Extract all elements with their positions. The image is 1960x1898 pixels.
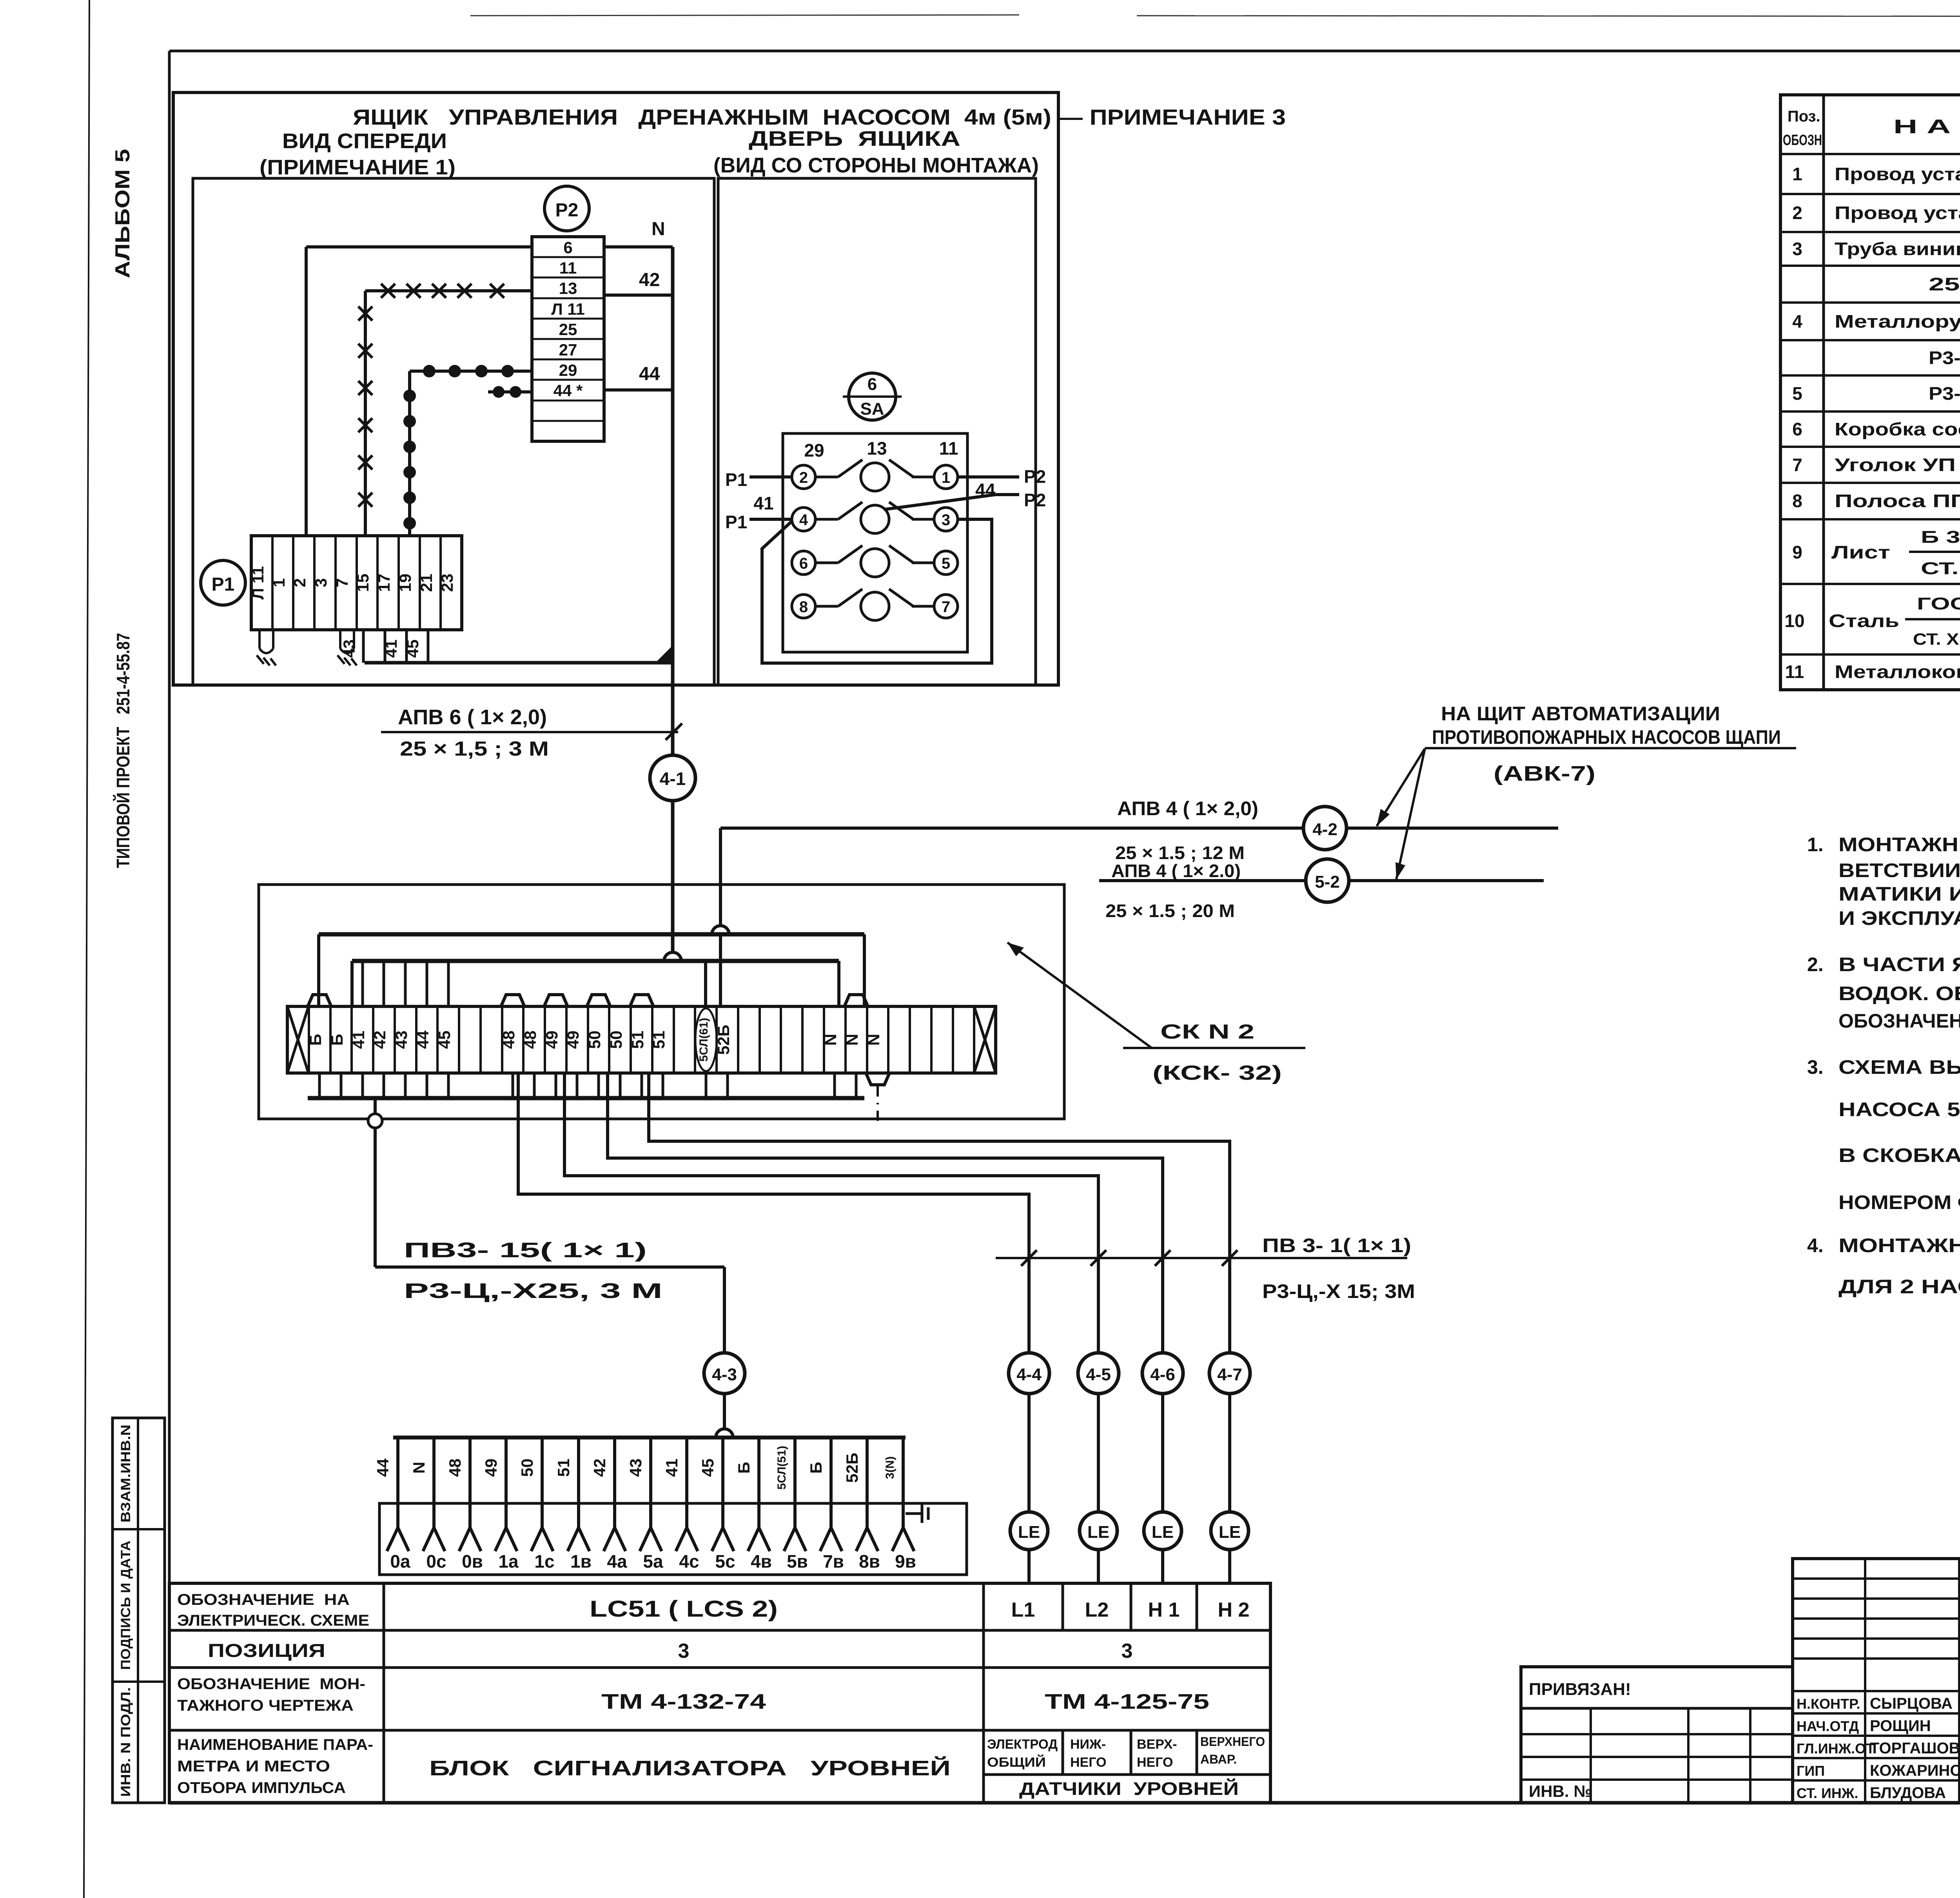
scan artifact top line — [470, 15, 1019, 16]
svg-text:49: 49 — [564, 1031, 582, 1049]
svg-text:Б: Б — [306, 1034, 325, 1046]
svg-text:4-1: 4-1 — [660, 769, 686, 789]
svg-text:1: 1 — [942, 469, 950, 486]
svg-text:3: 3 — [942, 511, 950, 529]
svg-text:(АВК-7): (АВК-7) — [1494, 762, 1595, 785]
svg-text:Р2: Р2 — [1024, 466, 1046, 487]
terminator symbol — [906, 1504, 928, 1523]
svg-text:L1: L1 — [1011, 1599, 1035, 1621]
svg-text:ОТБОРА ИМПУЛЬСА: ОТБОРА ИМПУЛЬСА — [177, 1779, 346, 1796]
svg-text:17: 17 — [375, 574, 393, 592]
svg-text:4: 4 — [799, 511, 808, 529]
svg-text:ОБЩИЙ: ОБЩИЙ — [987, 1755, 1046, 1770]
svg-text:0в: 0в — [462, 1551, 483, 1572]
sensor wire 42 — [590, 1438, 627, 1572]
svg-text:5: 5 — [942, 555, 950, 572]
svg-text:50: 50 — [518, 1459, 536, 1477]
svg-text:42: 42 — [590, 1459, 609, 1477]
sensor circle LE — [1211, 1512, 1249, 1550]
svg-text:3: 3 — [1122, 1640, 1133, 1662]
wire 4-2 — [720, 827, 1558, 830]
terminal strip P1 — [249, 536, 462, 630]
svg-text:1: 1 — [270, 578, 288, 587]
svg-text:Б: Б — [735, 1462, 753, 1474]
svg-text:В ЧАСТИ ЯЩИКА УПРАВЛЕНИЯ: В ЧАСТИ ЯЩИКА УПРАВЛЕНИЯ ВЫПОЛНИТЬ МОНТА… — [1838, 954, 1960, 975]
sensor wire 41 — [662, 1438, 699, 1572]
circle 5-2 — [1306, 859, 1349, 902]
svg-text:43: 43 — [392, 1031, 410, 1049]
svg-text:НАЧ.ОТД: НАЧ.ОТД — [1797, 1718, 1859, 1734]
svg-text:Металлорукав ТУ 22. 3988-77: Металлорукав ТУ 22. 3988-77 — [1835, 311, 1960, 332]
svg-text:3.: 3. — [1807, 1056, 1824, 1078]
svg-text:43: 43 — [626, 1459, 645, 1477]
svg-text:1с: 1с — [534, 1551, 554, 1572]
callout CK N2 — [1007, 943, 1152, 1048]
sensor wire 3(N) — [884, 1438, 916, 1572]
wire 48 — [518, 1073, 1029, 1353]
sensor wire 5СЛ(51) — [775, 1438, 808, 1572]
svg-text:1: 1 — [1792, 164, 1802, 184]
cable slash — [666, 723, 682, 740]
P2 designator circle — [544, 186, 589, 231]
svg-text:50: 50 — [585, 1031, 604, 1049]
demount wire with x marks — [358, 284, 532, 536]
wire stubs to main drop — [365, 661, 673, 665]
wire loop pin4 to pin3 — [762, 519, 992, 663]
svg-text:7в: 7в — [823, 1551, 844, 1572]
wire P2 row6 to P1 riser — [306, 245, 532, 248]
sensor wire 44 — [374, 1438, 410, 1572]
pass circle — [368, 1114, 382, 1128]
svg-text:БЛУДОВА: БЛУДОВА — [1870, 1784, 1946, 1802]
svg-text:8в: 8в — [859, 1551, 880, 1572]
wire below 4-5 — [1097, 1394, 1100, 1512]
svg-text:3(N): 3(N) — [884, 1456, 897, 1479]
switch SA contact box — [783, 433, 967, 652]
wire to table — [1027, 1550, 1031, 1583]
wire to table — [1161, 1550, 1164, 1583]
svg-text:ГЛ.ИНЖ.ОТ: ГЛ.ИНЖ.ОТ — [1797, 1740, 1875, 1757]
svg-text:Р3-Ц,-Х 15; 3М: Р3-Ц,-Х 15; 3М — [1262, 1280, 1415, 1302]
svg-text:Коробка соединительная КСК-3: Коробка соединительная КСК-32 — [1835, 419, 1960, 439]
svg-text:19: 19 — [396, 574, 414, 592]
wire PV3-15 vertical — [374, 1098, 377, 1114]
wire 50 — [608, 1073, 1163, 1353]
svg-text:4-6: 4-6 — [1150, 1365, 1175, 1384]
svg-text:ГОСТ 2590- 71*: ГОСТ 2590- 71* — [1917, 594, 1960, 613]
svg-text:7: 7 — [942, 598, 950, 616]
svg-text:41: 41 — [662, 1459, 681, 1477]
svg-text:ТАЖНОГО ЧЕРТЕЖА: ТАЖНОГО ЧЕРТЕЖА — [177, 1697, 354, 1714]
svg-text:СХЕМА ВЫПОЛНЕНА ДЛЯ НАСОСА: СХЕМА ВЫПОЛНЕНА ДЛЯ НАСОСА 4М И АНАЛОГИЧ… — [1838, 1056, 1960, 1078]
svg-text:25 × 1,5: 25 × 1,5 — [1929, 274, 1960, 294]
svg-text:Б 3.0 ГОСТ 19903-74*: Б 3.0 ГОСТ 19903-74* — [1921, 528, 1960, 547]
svg-text:В СКОБКАХ И МАРКИРОВКИ КАБ: В СКОБКАХ И МАРКИРОВКИ КАБЕЛЯ В СООТВЕТС… — [1838, 1144, 1960, 1166]
svg-text:4: 4 — [1792, 311, 1802, 332]
svg-text:8: 8 — [1792, 491, 1802, 511]
svg-text:25: 25 — [559, 320, 577, 339]
sensor circle LE — [1080, 1512, 1117, 1550]
svg-text:НОМЕРОМ ФУНКЦИОНАЛЬНОЙ ГРУ: НОМЕРОМ ФУНКЦИОНАЛЬНОЙ ГРУППЫ. — [1838, 1191, 1960, 1213]
svg-text:7: 7 — [333, 578, 351, 587]
svg-text:48: 48 — [499, 1031, 518, 1049]
svg-text:Б: Б — [807, 1462, 825, 1474]
svg-text:АПВ 6 ( 1× 2,0): АПВ 6 ( 1× 2,0) — [398, 705, 547, 729]
cell stubs to bottom bus — [319, 1073, 856, 1098]
svg-text:43: 43 — [340, 640, 358, 658]
svg-text:L2: L2 — [1085, 1599, 1109, 1621]
svg-text:И ЭКСПЛУАТАЦИИ ПРИБОРОВ.: И ЭКСПЛУАТАЦИИ ПРИБОРОВ. — [1838, 907, 1960, 929]
svg-text:СК N 2: СК N 2 — [1160, 1021, 1254, 1043]
svg-text:ВИД СПЕРЕДИ: ВИД СПЕРЕДИ — [282, 129, 447, 153]
svg-text:41: 41 — [382, 640, 400, 658]
svg-text:ОБОЗНАЧЕНИЕ НА: ОБОЗНАЧЕНИЕ НА — [177, 1591, 350, 1608]
sensor wire Б — [807, 1438, 844, 1572]
svg-text:ВЕРХ-: ВЕРХ- — [1137, 1737, 1177, 1752]
svg-text:7: 7 — [1792, 455, 1802, 475]
svg-text:29: 29 — [559, 361, 577, 379]
wire below 4-7 — [1228, 1394, 1231, 1512]
circle 4-7 — [1209, 1353, 1250, 1394]
sensor wire 50 — [518, 1438, 555, 1572]
svg-text:ОБОЗН: ОБОЗН — [1783, 132, 1822, 149]
wire PV3-15 run — [374, 1128, 377, 1267]
svg-text:2: 2 — [290, 578, 309, 587]
svg-text:SA: SA — [860, 399, 884, 419]
svg-text:51: 51 — [628, 1031, 647, 1049]
svg-text:N: N — [821, 1034, 840, 1046]
svg-text:4-2: 4-2 — [1312, 820, 1338, 839]
dash-dot tail — [877, 1086, 879, 1122]
svg-text:Лист: Лист — [1831, 542, 1890, 562]
wire main drop — [671, 247, 675, 755]
svg-text:4-3: 4-3 — [712, 1365, 737, 1384]
table row 7 — [1792, 455, 1960, 475]
svg-text:LЕ: LЕ — [1152, 1523, 1174, 1542]
wire 51 — [649, 1073, 1230, 1353]
svg-text:Б: Б — [328, 1034, 346, 1046]
top hooks — [308, 995, 868, 1006]
svg-text:СТ. ИНЖ.: СТ. ИНЖ. — [1797, 1785, 1858, 1801]
wire P2 row1 — [958, 475, 1019, 479]
cable run line — [996, 1257, 1407, 1259]
svg-text:Н 2: Н 2 — [1218, 1599, 1250, 1621]
svg-text:ТМ 4-132-74: ТМ 4-132-74 — [601, 1690, 766, 1713]
svg-text:48: 48 — [446, 1459, 464, 1477]
svg-text:5с: 5с — [715, 1551, 735, 1572]
svg-text:ПОДПИСЬ И ДАТА: ПОДПИСЬ И ДАТА — [118, 1541, 133, 1670]
svg-text:Полоса ПП 30: Полоса ПП 30 — [1835, 491, 1960, 511]
paper edge left — [84, 0, 89, 1898]
svg-text:44 *: 44 * — [554, 381, 583, 400]
svg-text:ТМ 4-125-75: ТМ 4-125-75 — [1045, 1690, 1209, 1713]
bump 4-1 on bus — [664, 952, 681, 961]
leader arrow 2 — [1396, 749, 1425, 879]
svg-text:Н 1: Н 1 — [1148, 1599, 1180, 1621]
svg-text:5-2: 5-2 — [1315, 872, 1340, 892]
svg-text:ТОРГАШОВ: ТОРГАШОВ — [1870, 1740, 1960, 1757]
circle 4-5 — [1078, 1353, 1119, 1394]
table row 5 — [1792, 383, 1960, 404]
svg-text:1а: 1а — [498, 1551, 519, 1572]
svg-text:МОНТАЖНЫЕ РАБОТЫ ДОЛЖНЫ: МОНТАЖНЫЕ РАБОТЫ ДОЛЖНЫ БЫТЬ ВЫПОЛНЕНЫ В… — [1838, 834, 1960, 856]
oval around 5SL — [695, 1008, 717, 1071]
svg-text:51: 51 — [554, 1459, 573, 1477]
svg-text:ВЕТСТВИИ С СНиП 3.05.07-85.: ВЕТСТВИИ С СНиП 3.05.07-85. НОРМАЛЯМИ ГЛ… — [1838, 859, 1960, 881]
svg-text:44: 44 — [374, 1458, 392, 1477]
svg-text:9в: 9в — [895, 1551, 916, 1572]
svg-text:5СЛ(51): 5СЛ(51) — [775, 1446, 788, 1490]
svg-text:Сталь: Сталь — [1829, 611, 1899, 631]
svg-text:Провод установочный ПВ3-1-38: Провод установочный ПВ3-1-380 ГОСТ 6323-… — [1835, 164, 1960, 184]
front view panel — [193, 178, 714, 685]
control box outer frame — [173, 92, 1058, 685]
mount wire with dots — [403, 365, 532, 536]
svg-text:Л 11: Л 11 — [249, 566, 267, 600]
svg-text:АЛЬБОМ 5: АЛЬБОМ 5 — [111, 149, 134, 278]
bottom hook — [866, 1073, 889, 1085]
svg-text:АПВ 4 ( 1× 2,0): АПВ 4 ( 1× 2,0) — [1117, 798, 1258, 819]
svg-text:41: 41 — [753, 493, 773, 513]
sensor wire 51 — [554, 1438, 592, 1572]
materials table — [1780, 95, 1960, 690]
svg-text:КОЖАРИНОВА: КОЖАРИНОВА — [1870, 1762, 1960, 1779]
svg-text:9: 9 — [1792, 542, 1802, 562]
run slashes — [1021, 1250, 1238, 1266]
svg-text:42: 42 — [639, 270, 660, 290]
svg-text:45: 45 — [403, 640, 422, 658]
svg-text:4-7: 4-7 — [1217, 1365, 1242, 1384]
SA contact row 2-1 — [792, 460, 958, 491]
svg-text:N: N — [864, 1034, 883, 1046]
svg-text:Р1: Р1 — [725, 470, 747, 490]
svg-text:ВЗАМ.ИНВ.N: ВЗАМ.ИНВ.N — [118, 1425, 133, 1523]
svg-text:(ВИД СО СТОРОНЫ МОНТАЖА): (ВИД СО СТОРОНЫ МОНТАЖА) — [713, 154, 1039, 177]
SA contact row 8-7 — [792, 589, 958, 620]
svg-text:(КСК- 32): (КСК- 32) — [1152, 1062, 1282, 1084]
svg-text:45: 45 — [699, 1459, 717, 1477]
svg-text:ЭЛЕКТРИЧЕСК. СХЕМЕ: ЭЛЕКТРИЧЕСК. СХЕМЕ — [177, 1612, 369, 1629]
svg-text:Металлоконструкции для крепл: Металлоконструкции для крепления трасс — [1835, 662, 1960, 682]
risers bus2 cells 41-45 — [363, 961, 448, 1006]
circle 4-2 — [1303, 807, 1347, 850]
svg-text:5СЛ(61): 5СЛ(61) — [697, 1018, 710, 1062]
svg-text:13: 13 — [559, 279, 577, 297]
terminal stubs 43 41 45 — [340, 630, 428, 663]
svg-text:ДЛЯ 2 НАСОСОВ.: ДЛЯ 2 НАСОСОВ. — [1838, 1276, 1960, 1298]
title block left grid — [1521, 1667, 1793, 1803]
svg-text:3: 3 — [312, 578, 330, 587]
wire to table — [1228, 1550, 1231, 1583]
bus second — [352, 959, 839, 963]
svg-text:N: N — [843, 1034, 861, 1046]
leader arrow 1 — [1377, 749, 1425, 826]
svg-text:Р3-Ц,-Х 15: Р3-Ц,-Х 15 — [1929, 348, 1960, 368]
svg-text:25 × 1.5 ; 12 М: 25 × 1.5 ; 12 М — [1115, 843, 1245, 863]
svg-text:ПОЗИЦИЯ: ПОЗИЦИЯ — [208, 1641, 325, 1661]
svg-text:ВОДОК. ОБОЗНАЧЕННЫХ —●—●—: ВОДОК. ОБОЗНАЧЕННЫХ —●—●— И ДЕМОНТАЖ ПРО… — [1838, 983, 1960, 1004]
svg-text:ИНВ. N ПОДЛ.: ИНВ. N ПОДЛ. — [118, 1687, 133, 1797]
svg-text:1.: 1. — [1807, 834, 1824, 856]
svg-text:27: 27 — [559, 341, 577, 359]
svg-text:АПВ 4 ( 1× 2.0): АПВ 4 ( 1× 2.0) — [1111, 861, 1241, 881]
svg-text:Поз.: Поз. — [1788, 108, 1820, 125]
drop to 5SL — [704, 961, 707, 1006]
table row 9 list — [1792, 528, 1960, 578]
svg-text:НЕГО: НЕГО — [1070, 1755, 1107, 1770]
svg-text:4в: 4в — [751, 1551, 772, 1572]
svg-text:СТ. 3 ГОСТ 16523 - 70*: СТ. 3 ГОСТ 16523 - 70* — [1921, 559, 1960, 578]
svg-text:LЕ: LЕ — [1219, 1523, 1241, 1542]
P1 designator circle — [201, 560, 245, 605]
switch SA designator — [849, 373, 896, 420]
svg-text:Труба винипластовая ТУ 619.0: Труба винипластовая ТУ 619.051. 249-79 — [1835, 239, 1960, 259]
svg-text:ТИПОВОЙ ПРОЕКТ 251-4-55.87: ТИПОВОЙ ПРОЕКТ 251-4-55.87 — [113, 633, 133, 868]
svg-text:ПРОТИВОПОЖАРНЫХ НАСОСОВ ЩАПИ: ПРОТИВОПОЖАРНЫХ НАСОСОВ ЩАПИ — [1432, 726, 1781, 748]
svg-text:НИЖ-: НИЖ- — [1070, 1737, 1106, 1752]
SA contact row 6-5 — [792, 546, 958, 577]
table row 1 — [1792, 164, 1960, 184]
table row 4 — [1792, 311, 1960, 332]
sensor circle LE — [1144, 1512, 1181, 1550]
wire 49 — [564, 1073, 1098, 1353]
table row 2 — [1792, 203, 1960, 223]
table row Р3-Ц,-Х 15 — [1929, 348, 1960, 368]
svg-text:Р2: Р2 — [1024, 490, 1046, 510]
circle 4-6 — [1142, 1353, 1183, 1394]
svg-text:41: 41 — [349, 1031, 368, 1049]
svg-text:Уголок УП 35× 35: Уголок УП 35× 35 — [1835, 455, 1960, 475]
svg-text:Р2: Р2 — [555, 200, 579, 221]
svg-text:LС51 ( LСS 2): LС51 ( LСS 2) — [590, 1596, 778, 1622]
svg-text:44: 44 — [414, 1030, 432, 1049]
drawing frame — [169, 50, 1960, 53]
terminal strip CK — [287, 1006, 996, 1073]
svg-text:ДАТЧИКИ УРОВНЕЙ: ДАТЧИКИ УРОВНЕЙ — [1019, 1778, 1239, 1799]
svg-text:Провод установочный АПВ- 2,0: Провод установочный АПВ- 2,0-380 — [1835, 203, 1960, 223]
svg-text:АВАР.: АВАР. — [1200, 1752, 1237, 1766]
wire below 4-4 — [1027, 1394, 1031, 1512]
legend table — [169, 1583, 1270, 1803]
bump 4-2 on bus — [712, 926, 729, 934]
svg-text:6: 6 — [1792, 419, 1802, 439]
svg-text:10: 10 — [1784, 611, 1804, 631]
svg-text:5в: 5в — [787, 1551, 808, 1572]
margin stamp column — [113, 1418, 165, 1803]
svg-text:БЛОК СИГНАЛИЗАТОРА УРОВНЕЙ: БЛОК СИГНАЛИЗАТОРА УРОВНЕЙ — [429, 1756, 951, 1780]
ground hook 1 — [257, 630, 276, 665]
svg-text:LЕ: LЕ — [1018, 1523, 1040, 1542]
table row 6 — [1792, 419, 1960, 439]
sensor wire 52Б — [843, 1438, 880, 1572]
svg-text:НА ЩИТ АВТОМАТИЗАЦИИ: НА ЩИТ АВТОМАТИЗАЦИИ — [1441, 703, 1720, 725]
svg-text:ГИП: ГИП — [1797, 1763, 1825, 1779]
svg-text:Р1: Р1 — [725, 512, 747, 532]
svg-text:3: 3 — [678, 1640, 690, 1662]
svg-text:6: 6 — [867, 375, 877, 394]
svg-text:(ПРИМЕЧАНИЕ 1): (ПРИМЕЧАНИЕ 1) — [260, 156, 456, 179]
svg-text:ПРИВЯЗАН!: ПРИВЯЗАН! — [1529, 1680, 1631, 1699]
svg-text:НЕГО: НЕГО — [1137, 1755, 1173, 1770]
svg-text:44: 44 — [639, 364, 660, 384]
svg-text:2.: 2. — [1807, 954, 1824, 975]
svg-text:4-4: 4-4 — [1016, 1365, 1042, 1384]
svg-text:2: 2 — [1792, 203, 1802, 223]
svg-text:ПВ 3- 1( 1× 1): ПВ 3- 1( 1× 1) — [1262, 1235, 1411, 1256]
svg-text:МОНТАЖНЫЕ МАТЕРИАЛЫ И: МОНТАЖНЫЕ МАТЕРИАЛЫ И ИЗДЕЛИЯ УЧТЕНЫ — [1838, 1235, 1960, 1256]
door view panel — [718, 178, 1036, 685]
sensor wire 49 — [482, 1438, 519, 1572]
sensor wire 43 — [626, 1438, 663, 1572]
svg-text:11: 11 — [939, 438, 958, 459]
level block outline — [379, 1503, 967, 1575]
svg-text:4с: 4с — [679, 1551, 699, 1572]
svg-text:25 × 1.5 ; 20 М: 25 × 1.5 ; 20 М — [1105, 901, 1235, 921]
svg-text:8: 8 — [799, 598, 808, 616]
svg-text:6: 6 — [563, 238, 572, 257]
mount wire stub dots — [488, 386, 532, 398]
svg-text:СЫРЦОВА: СЫРЦОВА — [1870, 1695, 1953, 1712]
svg-text:РОЩИН: РОЩИН — [1870, 1717, 1931, 1735]
svg-text:11: 11 — [559, 259, 577, 277]
svg-text:45: 45 — [435, 1031, 454, 1049]
svg-text:N: N — [410, 1462, 428, 1474]
svg-text:48: 48 — [521, 1031, 539, 1049]
svg-text:52Б: 52Б — [843, 1453, 861, 1483]
ground hook 2 — [338, 630, 357, 665]
wire below 4-6 — [1161, 1394, 1164, 1512]
svg-text:29: 29 — [804, 440, 824, 460]
svg-text:6: 6 — [799, 555, 808, 572]
wire 5-2 — [1099, 879, 1544, 882]
svg-text:5: 5 — [1792, 383, 1802, 404]
svg-text:СТ. Х18 Н 10Т ГОСТ 5949-75*: СТ. Х18 Н 10Т ГОСТ 5949-75* — [1913, 630, 1960, 648]
svg-text:2: 2 — [799, 469, 808, 486]
svg-text:Р1: Р1 — [212, 574, 235, 595]
table row 25 × 1,5 — [1929, 274, 1960, 294]
junction box CK N2 — [259, 885, 1064, 1119]
svg-text:ЭЛЕКТРОД: ЭЛЕКТРОД — [987, 1737, 1058, 1752]
svg-text:49: 49 — [543, 1031, 561, 1049]
svg-text:0а: 0а — [390, 1551, 410, 1572]
drop to 52B — [719, 934, 722, 1006]
svg-text:4.: 4. — [1807, 1235, 1824, 1256]
wire 4-3 to bus — [723, 1394, 726, 1429]
svg-text:Р3-Ц,-Х 25: Р3-Ц,-Х 25 — [1929, 383, 1960, 404]
wire to table — [1097, 1550, 1100, 1583]
svg-text:ОБОЗНАЧЕНИЕ МОН-: ОБОЗНАЧЕНИЕ МОН- — [177, 1675, 365, 1693]
svg-text:42: 42 — [370, 1031, 389, 1049]
svg-text:LЕ: LЕ — [1087, 1523, 1109, 1542]
sensor wire N — [410, 1438, 446, 1572]
svg-text:Л 11: Л 11 — [551, 300, 585, 318]
svg-text:4-5: 4-5 — [1086, 1365, 1111, 1384]
svg-text:ЯЩИК УПРАВЛЕНИЯ ДРЕНАЖНЫМ: ЯЩИК УПРАВЛЕНИЯ ДРЕНАЖНЫМ НАСОСОМ 4м (5м… — [353, 105, 1286, 129]
svg-text:50: 50 — [607, 1031, 625, 1049]
sensor wire 48 — [446, 1438, 483, 1572]
terminal block P2 — [532, 237, 604, 441]
svg-text:49: 49 — [482, 1459, 500, 1477]
table row 3 — [1792, 239, 1960, 259]
svg-text:13: 13 — [867, 438, 887, 459]
svg-text:ВЕРХНЕГО: ВЕРХНЕГО — [1200, 1735, 1265, 1749]
svg-text:ПВ3- 15( 1× 1): ПВ3- 15( 1× 1) — [404, 1238, 647, 1262]
svg-text:21: 21 — [417, 574, 436, 592]
circle 4-4 — [1009, 1353, 1049, 1394]
sensor circle LE — [1010, 1512, 1048, 1550]
table row 10 stal — [1784, 593, 1960, 648]
SA contact row 4-3 — [792, 502, 958, 533]
